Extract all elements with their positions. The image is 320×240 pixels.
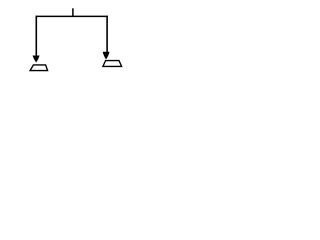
top horizontal wire xyxy=(36,15,108,17)
right arrowhead xyxy=(103,52,110,60)
left arrowhead xyxy=(33,56,40,63)
right plate (trapezoid) xyxy=(103,61,122,67)
feed stub wire xyxy=(72,8,74,16)
right vertical wire xyxy=(106,16,108,53)
left plate (trapezoid) xyxy=(30,65,47,71)
left vertical wire xyxy=(35,16,37,57)
